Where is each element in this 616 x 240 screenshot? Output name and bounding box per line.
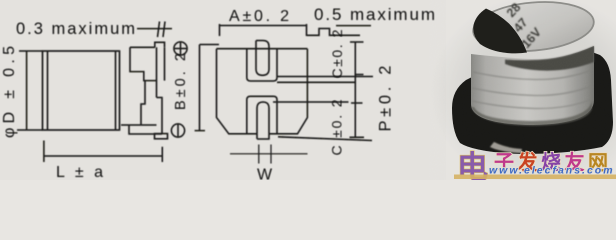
- base bottom highlight: [490, 142, 522, 153]
- lower terminal pad outline: [247, 96, 277, 134]
- photo grain: [446, 0, 616, 180]
- extension line from lower terminal tip: [278, 137, 372, 141]
- 0.3 maximum tick marks: [158, 22, 166, 38]
- photo background halo: [410, 0, 616, 207]
- paper noise: [0, 0, 616, 180]
- lower terminal strip outer edge: [157, 98, 163, 135]
- upper terminal tab: [155, 42, 165, 47]
- dimension ticks on C/P line: [350, 42, 365, 137]
- extension line from upper pad bottom: [277, 81, 356, 83]
- watermark: [454, 150, 616, 185]
- aluminium can body: [471, 46, 594, 125]
- base plate left outline with step: [130, 47, 157, 80]
- dimension phi-D line: [26, 51, 28, 130]
- capacitor can body (side view): [43, 51, 120, 130]
- polarity wedge marking on top: [473, 9, 527, 54]
- upper terminal pad outline: [247, 49, 277, 81]
- can left crimp line: [47, 51, 49, 130]
- base middle outline: [141, 81, 145, 125]
- polarity plus symbol: [174, 42, 187, 55]
- 0.5 maximum step profile: [307, 29, 361, 36]
- upper terminal strip outer edge: [164, 47, 166, 80]
- extension line from upper slot bottom: [277, 76, 373, 78]
- capacitor top face: [471, 0, 596, 56]
- top face markings 28 47 16V: [504, 0, 545, 51]
- dimension phi-D extension line top: [19, 50, 43, 52]
- watermark underline bar: [454, 175, 616, 180]
- under-rim shadow: [505, 46, 594, 71]
- molded black base: [452, 52, 613, 154]
- lower terminal slot: [257, 102, 269, 139]
- extension line from lower slot top: [273, 101, 349, 103]
- can right rim inner line: [115, 51, 117, 130]
- can texture streaks: [472, 70, 592, 109]
- dimension W tick marks: [259, 145, 271, 164]
- polarity minus symbol: [171, 124, 184, 137]
- lower terminal tab: [155, 134, 168, 139]
- page background: [0, 0, 616, 180]
- dimension A line with end ticks: [220, 24, 307, 36]
- upper terminal slot: [256, 41, 269, 76]
- dimension B line: [195, 45, 219, 131]
- dimension phi-D extension line bottom: [17, 129, 43, 131]
- dimension W line: [230, 153, 308, 155]
- base bottom plate: [121, 125, 162, 134]
- base plate top edge: [130, 46, 155, 48]
- dimension C and P shared line: [354, 42, 356, 137]
- dimension L line: [44, 155, 162, 157]
- 0.5 maximum leader: [336, 25, 371, 27]
- dimension L extension lines: [44, 141, 162, 163]
- 0.3 maximum leader line: [137, 28, 172, 30]
- chip body outline (bottom view): [217, 49, 308, 134]
- can bottom shadow: [471, 101, 592, 126]
- upper terminal strip inner edge: [156, 47, 158, 97]
